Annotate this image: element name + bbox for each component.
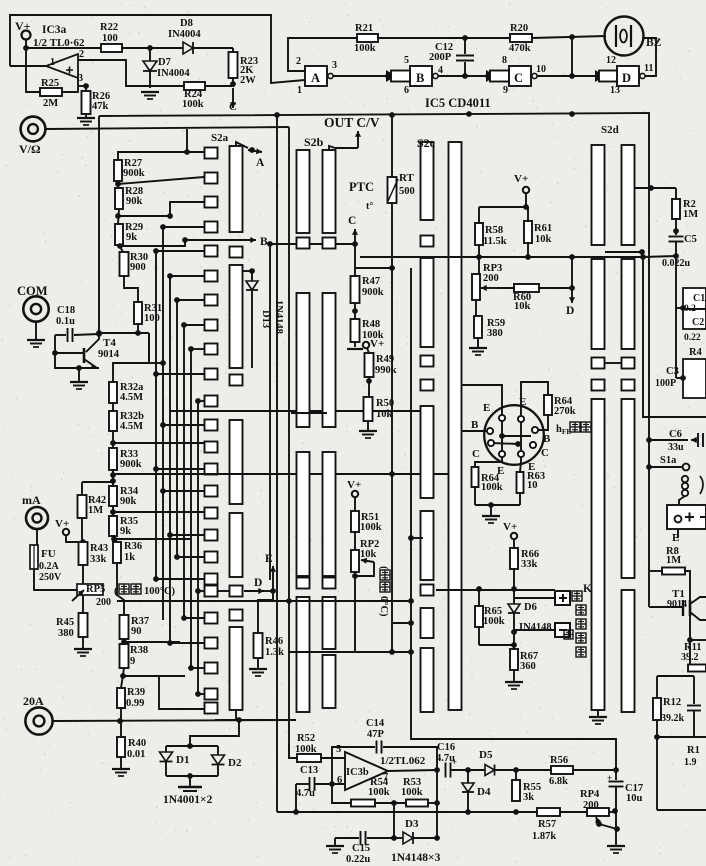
svg-text:R20: R20 [510,23,528,34]
wire hFE B left [461,430,487,432]
svg-text:C: C [229,101,237,113]
svg-text:S2b: S2b [304,135,324,149]
svg-text:D: D [622,71,631,85]
wire bus y652 [288,651,412,653]
svg-text:E: E [265,553,273,565]
svg-text:1k: 1k [124,552,135,563]
svg-text:PTC: PTC [349,180,374,194]
svg-text:R56: R56 [550,755,568,766]
wire R30-R31 [124,276,138,302]
svg-text:C14: C14 [366,718,385,729]
svg-text:E: E [483,402,490,414]
terminal V/ohm [21,117,46,142]
svg-text:10k: 10k [535,234,552,245]
resistor R12 [653,698,661,720]
wire RP4 wiper [596,817,599,824]
wire V-ohm bus [45,127,289,129]
wire bundle stub y325 [184,324,204,326]
svg-text:D: D [566,305,574,317]
svg-text:R49: R49 [376,354,394,365]
switch S2d left sq2 [592,380,605,391]
svg-text:1.9: 1.9 [684,757,697,768]
svg-text:100k: 100k [295,744,317,755]
svg-text:10k: 10k [514,301,531,312]
wire top-left box [10,15,305,83]
switch S2d right pole4 [622,590,635,712]
resistor R61 [527,207,529,221]
wire pin2 feedback [78,60,184,86]
wire D3 row [393,803,395,838]
svg-text:1.87k: 1.87k [532,831,556,842]
svg-text:4.5M: 4.5M [120,392,143,403]
svg-text:D8: D8 [180,18,193,29]
svg-text:100k: 100k [182,99,204,110]
switch S2c left pole6 [421,648,434,712]
ground R45 [82,637,84,648]
node C arrow mid [336,243,355,245]
wire node207 [479,206,528,208]
wire bundle stub y668 [191,667,204,669]
ground C15 [334,838,336,845]
switch S2d right pole3 [622,399,635,578]
ground R26 [85,114,87,117]
svg-text:R36: R36 [124,541,142,552]
svg-text:R1: R1 [687,745,700,756]
wedge gate B input [386,70,396,82]
switch S2c left sq4 [421,585,434,596]
svg-text:9: 9 [130,656,135,667]
svg-text:0.22u: 0.22u [346,854,370,865]
svg-text:S2a: S2a [211,132,229,144]
wire sq tie 591 [217,590,230,592]
junction bus dots [274,112,280,118]
svg-text:33k: 33k [521,559,538,570]
wire S2c stub 538 [411,537,423,539]
svg-text:100P: 100P [655,378,676,389]
wire bundle stub y579 [156,578,204,580]
wire R39-R40 [120,708,122,737]
svg-text:200: 200 [96,597,111,608]
resistor R64a [544,395,552,415]
resistor R31 [134,302,142,324]
svg-text:D7: D7 [158,57,171,68]
svg-text:IN4148: IN4148 [519,622,552,633]
ground R48 [354,342,356,347]
wire V+ to R22 [25,40,27,48]
svg-text:1N4148: 1N4148 [273,300,284,334]
svg-text:+: + [607,773,612,783]
wire bundle vertical x149 [148,333,150,363]
wedge gate D input [595,70,605,82]
svg-text:39.2k: 39.2k [661,713,685,724]
wire low rail [277,811,587,813]
svg-text:IC5 CD4011: IC5 CD4011 [425,96,491,110]
svg-text:9: 9 [503,85,508,96]
socket hFE internal [501,416,503,454]
resistor R35 [109,516,117,536]
wire R24 to C node [205,84,233,86]
switch S2a sq D2 [230,586,243,597]
switch S2c left pole5 [421,608,434,638]
svg-text:990k: 990k [375,365,397,376]
node D arrow right [571,288,573,303]
resistor R32b [112,403,114,411]
svg-text:33k: 33k [90,554,107,565]
switch S2a pole1 [230,146,243,232]
resistor R48 [351,319,360,342]
wire mA to FU [36,529,38,545]
svg-text:9014: 9014 [98,349,120,360]
capacitor C5 [669,236,684,238]
wire bundle stub y349 [191,348,204,350]
thermocouple K minus [555,623,570,637]
wire T4 emitter loop [55,335,84,353]
wire bus y601 [117,600,411,602]
svg-text:D1: D1 [176,754,189,766]
resistor R21 [357,34,378,42]
switch S2b left sq2 [297,578,310,589]
wire A to B [333,75,388,77]
wire R61 bus [527,243,529,257]
svg-text:R4: R4 [689,347,703,358]
ground C17 [607,845,625,847]
svg-text:R43: R43 [90,543,108,554]
svg-text:2: 2 [296,56,301,67]
svg-text:B: B [543,433,551,445]
svg-text:IC3b: IC3b [346,767,369,778]
svg-text:11.5k: 11.5k [483,236,507,247]
wire bundle stub y591 [198,590,204,592]
svg-text:90k: 90k [126,196,143,207]
svg-text:mA: mA [22,493,41,507]
wire bundle stub y694 [198,693,204,695]
wire RP3 wiper [481,287,497,289]
svg-text:90: 90 [131,626,142,637]
switch S2b right pole4 [323,597,336,649]
svg-text:1: 1 [50,57,55,68]
svg-text:1M: 1M [683,209,698,220]
svg-text:R25: R25 [41,78,59,89]
resistor R42 [78,495,87,518]
resistor R52 [289,744,297,758]
wire R58 RP3 [478,245,480,274]
diode D7 [149,48,151,61]
wire RP5-R45 [82,595,84,613]
resistor R57 [537,808,560,816]
switch S2b left sq1 [297,238,310,249]
wire gateA feedback [288,38,357,71]
svg-text:900: 900 [130,262,146,273]
svg-text:0.22: 0.22 [684,333,701,343]
svg-text:100k: 100k [481,482,503,493]
wire FU down [34,569,77,590]
resistor R60 [514,284,539,292]
svg-text:9k: 9k [120,526,131,537]
svg-text:100k: 100k [368,787,390,798]
switch S2b left pole1 [297,150,310,233]
svg-text:10: 10 [536,64,546,75]
svg-text:200: 200 [583,800,599,811]
wire bus y411 [170,410,420,412]
gate D [617,66,639,86]
svg-text:V/Ω: V/Ω [19,142,41,156]
switch S2a sq A2 [230,247,243,258]
resistor R20 [510,34,532,42]
socket hFE circle [484,405,544,465]
wire R53 right [428,802,437,804]
pot RP4 [587,808,609,816]
svg-text:D3: D3 [405,818,419,830]
wire D6 R65 join [513,614,515,649]
svg-text:R48: R48 [362,319,380,330]
resistor R24 [184,82,205,90]
svg-text:C2: C2 [692,317,704,328]
wire S2d cross 252 [605,251,642,253]
wire R32b-R33 [112,431,114,448]
ground R46 [257,658,259,668]
resistor R30 [120,252,129,276]
ground D1D2 [189,776,191,786]
switch S2a pole5 [230,627,243,710]
svg-text:R50: R50 [376,398,394,409]
wire S2a bottom feed [159,676,204,709]
svg-text:250V: 250V [39,572,62,583]
resistor R39 [117,688,125,708]
wire C1C2 left [680,305,686,311]
svg-text:1/2TL062: 1/2TL062 [380,755,426,767]
wire bundle stub y557 [177,556,204,558]
svg-text:C6: C6 [669,429,682,440]
switch S2d right pole2 [622,259,635,349]
svg-text:0.2A: 0.2A [39,561,60,572]
svg-text:S2d: S2d [601,124,619,136]
wire bundle vertical x184 [183,325,185,618]
resistor R65 [478,589,480,606]
wire S2a bottom bus [215,719,296,721]
svg-text:3: 3 [332,60,337,71]
wire BZ right [643,38,656,76]
diode D2 [217,746,219,755]
svg-text:500: 500 [399,186,415,197]
wire D1D2 top rail [166,745,218,747]
resistor R58 [478,207,480,223]
svg-text:K: K [583,583,592,595]
svg-text:10k: 10k [376,409,393,420]
resistor R45 [79,613,88,637]
svg-text:R22: R22 [100,22,118,33]
resistor R64b [472,467,479,487]
wire R27-R28 [117,181,119,188]
diode D13 [249,268,255,274]
wire R23 down [232,78,234,84]
switch S2b right sq1 [323,238,336,249]
wire R33-R34 [112,470,114,486]
wire R31 bottom [137,324,139,333]
switch S2b right pole2 [323,293,336,427]
wire bundle stub y643 [170,642,204,644]
switch S2a pole2 [230,265,243,368]
svg-text:380: 380 [58,628,74,639]
wire to R32a [113,333,149,382]
diode D6 [513,589,515,604]
resistor R29 [115,224,123,245]
wire R22 to D8 [122,47,183,49]
wire R12 bottom [656,720,658,737]
svg-text:D4: D4 [477,786,491,798]
wire bundle stub y374 [156,373,204,375]
switch S2c right pole [449,142,462,710]
switch S2c left sq2 [421,356,434,367]
capacitor C7 [693,676,695,704]
svg-text:1.3k: 1.3k [265,647,284,658]
svg-text:D5: D5 [479,749,493,761]
wire R25 right to pin3 [62,78,78,92]
svg-text:RP5: RP5 [86,584,105,595]
svg-text:100k: 100k [401,787,423,798]
wire bus y257 [360,256,643,258]
wire hFE C2 down [520,457,521,472]
svg-text:10: 10 [527,480,538,491]
svg-text:90k: 90k [120,496,137,507]
svg-text:D6: D6 [524,602,537,613]
wire RP2 bottom [354,572,356,577]
wire R38-R39 [121,668,124,688]
wire R56 C17 [573,769,616,771]
svg-text:1N4001×2: 1N4001×2 [163,794,213,806]
wire R37-R38 [123,639,125,644]
svg-text:V+: V+ [370,338,384,350]
wire bundle stub y251 [156,250,204,252]
wire R37top [117,563,124,615]
resistor R59 [475,300,477,316]
wire S2d sq tie [605,362,621,364]
resistor R50 [364,397,373,421]
svg-text:6.8k: 6.8k [549,776,568,787]
switch S2d left sq1 [592,358,605,369]
resistor R67 [510,649,518,670]
svg-text:900k: 900k [123,168,145,179]
svg-text:A: A [311,71,320,85]
svg-text:9k: 9k [126,232,137,243]
svg-text:B: B [471,419,479,431]
wire bundle vertical x198 [197,401,199,694]
svg-text:IN4004: IN4004 [168,29,201,40]
wire thermo row [513,568,515,589]
wire bundle vertical x163 [162,227,164,620]
wire hFE Etop2 [521,382,548,416]
socket hFE pins [499,415,505,421]
wire R8 T1 [685,571,690,600]
wire C feed [270,243,355,245]
wire x270 [269,244,271,580]
switch S2d left pole1 [592,145,605,245]
wire bundle stub y227 [163,226,204,228]
fuse FU [30,545,38,569]
wire C13 loop [295,784,297,812]
wire x643 down [643,257,706,417]
wire 20A bus [53,720,296,721]
svg-text:5: 5 [336,744,341,755]
wire bundle stub y469 [156,468,204,470]
svg-text:B: B [260,236,268,248]
transistor T4 [98,116,100,334]
svg-text:FU: FU [41,548,56,560]
wire pin1 [10,65,46,67]
switch S2d left pole2 [592,259,605,349]
svg-text:5: 5 [404,55,409,66]
wire R64b R63 join [474,487,476,505]
svg-text:380: 380 [487,328,503,339]
svg-text:S1a: S1a [660,455,677,466]
svg-text:R52: R52 [297,733,315,744]
svg-text:0.99: 0.99 [126,698,144,709]
svg-text:R46: R46 [265,636,283,647]
svg-text:0.01: 0.01 [127,749,145,760]
wedge gate C input [486,70,496,82]
wire out node [388,770,437,771]
switch S2c left sq1 [421,236,434,247]
svg-text:4: 4 [438,65,443,76]
svg-text:1/2 TL0·62: 1/2 TL0·62 [33,37,85,49]
ground COM [35,322,37,339]
svg-text:R39: R39 [127,687,145,698]
svg-text:T4: T4 [103,337,116,349]
svg-text:13: 13 [610,85,620,96]
resistor R32a [109,382,117,403]
ground S2d [597,710,599,716]
svg-text:C18: C18 [57,305,75,316]
wire R28-R29 [118,209,119,224]
wire RP2 wiper [361,560,374,562]
svg-text:OUT C/V: OUT C/V [324,115,380,130]
switch S2a pole3 [230,420,243,504]
svg-text:100: 100 [102,33,118,44]
resistor R38 [120,644,129,668]
svg-text:100k: 100k [483,616,505,627]
svg-text:20A: 20A [23,694,44,708]
svg-text:270k: 270k [554,406,576,417]
wire OUT arrow [335,147,358,149]
switch S2b right pole5 [323,655,336,708]
resistor R36 [113,542,121,563]
wire S2b top arrow [329,146,335,150]
svg-text:C5: C5 [684,234,697,245]
wire R47-R48 [354,303,356,319]
thermocouple K plus [555,591,570,605]
pot RP5 [82,565,84,584]
label K text [572,591,582,601]
wire R21 to R20 [378,37,510,39]
wire R25 left [26,48,40,92]
switch S2c left sq3 [421,380,434,391]
switch S2c left pole1 [421,142,434,220]
svg-text:B: B [416,71,424,85]
svg-text:+: + [452,757,457,767]
wire bundle vertical x170 [169,276,171,643]
svg-text:33u: 33u [668,442,684,453]
resistor R22 [101,44,122,52]
switch S2b right pole1 [323,150,336,233]
ground D7 [141,91,159,93]
svg-text:1M: 1M [88,505,103,516]
switch S1a contacts [682,476,688,482]
wire R12 top [656,676,658,698]
svg-text:V+: V+ [347,479,361,491]
svg-text:4.7u: 4.7u [296,788,315,799]
resistor R66 [513,539,515,548]
wire hFE C down [475,457,502,467]
svg-text:R47: R47 [362,276,380,287]
